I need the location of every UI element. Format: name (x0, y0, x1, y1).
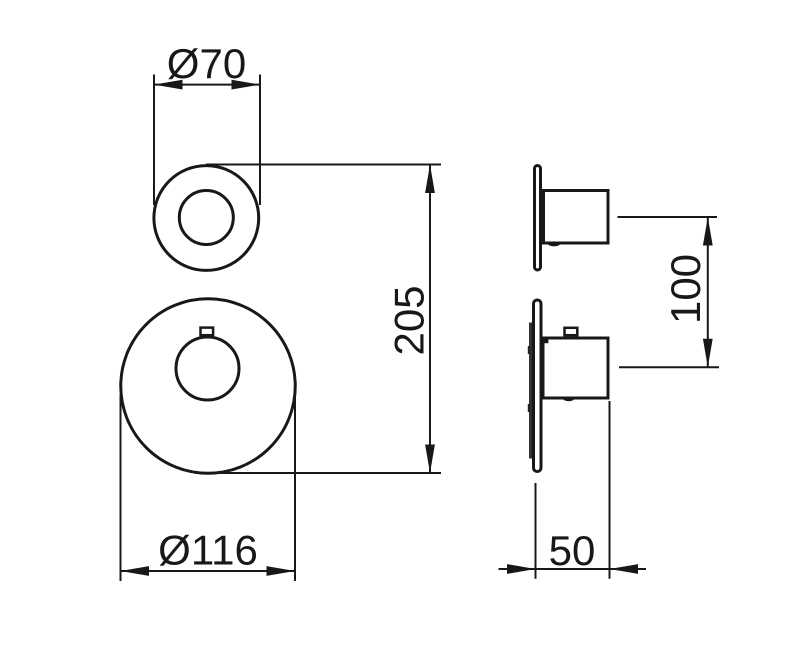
dim 205 top arrow (425, 165, 435, 194)
side view bottom: valve body (543, 338, 608, 398)
side view bottom: top-left dot (544, 338, 548, 343)
side view top: wall plate (535, 166, 541, 271)
dim 50 body extension line (609, 401, 611, 579)
dim 100 bottom reference line (619, 366, 719, 368)
dim Ø70 dimension line (154, 84, 260, 86)
dim Ø116 right arrow (267, 566, 296, 576)
dim Ø70 left arrow (154, 80, 183, 90)
dim 50 left arrow (outside, pointing right) (507, 564, 536, 574)
side view top: lever mark (548, 241, 560, 246)
dim Ø70 right arrow (232, 80, 261, 90)
side view bottom: temperature tab (565, 328, 578, 335)
small escutcheon outer circle (front view, top) (154, 166, 259, 271)
dim 50 plate extension line (535, 483, 537, 579)
side view bottom: wall plate (534, 300, 542, 472)
side view bottom: strip notch upper (528, 346, 531, 354)
dim Ø70 right extension line (259, 75, 261, 206)
thermostat knob inner circle (176, 337, 239, 400)
dim Ø116 left arrow (121, 566, 150, 576)
dim Ø116 dimension line (121, 570, 296, 572)
svg-text:100: 100 (662, 254, 709, 324)
side view top: valve body (544, 191, 609, 244)
dim 100 bottom arrow (703, 339, 713, 368)
dim 100 top arrow (703, 217, 713, 246)
small escutcheon inner circle (179, 191, 233, 245)
svg-text:Ø116: Ø116 (158, 527, 258, 574)
top tangent reference line (206, 164, 441, 166)
dim 100 top reference line (618, 216, 718, 218)
side view bottom: strip notch lower (528, 404, 531, 412)
svg-text:Ø70: Ø70 (167, 40, 246, 87)
svg-text:50: 50 (549, 527, 596, 574)
bottom tangent reference line (195, 472, 441, 474)
dim Ø116 right extension line (294, 392, 296, 581)
dim Ø70 left extension line (153, 75, 155, 206)
dim 100 dimension line (707, 217, 709, 367)
side view bottom: lever mark (563, 397, 574, 401)
thermostat knob tab (201, 328, 214, 336)
dim 205 dimension line (429, 165, 431, 474)
dim 50 right arrow (outside, pointing left) (610, 564, 639, 574)
dim 205 bottom arrow (425, 445, 435, 474)
large escutcheon outer circle (front view, bottom) (121, 299, 296, 474)
svg-text:205: 205 (386, 285, 433, 355)
dim 50 dimension line (499, 568, 647, 570)
dim Ø116 left extension line (120, 395, 122, 581)
side view bottom: concealed flange strip (529, 323, 534, 459)
